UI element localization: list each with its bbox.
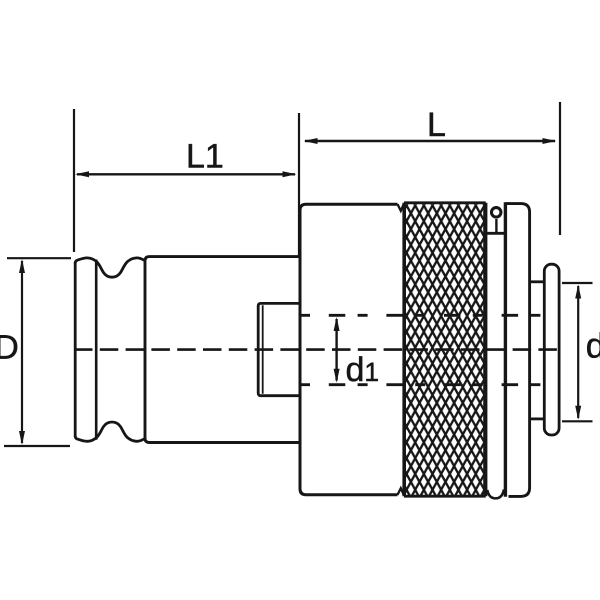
shank groove top silhouette xyxy=(75,258,145,277)
ball tick line xyxy=(495,219,497,232)
knurl band top edge xyxy=(404,201,486,204)
dimension L arrow right xyxy=(543,138,557,144)
knurl band right border xyxy=(483,203,487,496)
bottom relief groove U xyxy=(487,490,504,499)
shank left edge xyxy=(74,262,77,437)
stub bottom edge xyxy=(530,417,545,420)
boss chamfer line xyxy=(262,305,264,393)
collar outline xyxy=(505,204,529,497)
shank groove bottom silhouette xyxy=(75,422,145,441)
dimension D line xyxy=(21,261,23,443)
dimension L1/L shared extension line xyxy=(298,113,300,256)
body top V-notch xyxy=(398,204,405,211)
dimension D extension line top xyxy=(7,257,71,259)
dimension L1 extension line left xyxy=(73,109,75,252)
dimension d1 arrow up xyxy=(334,317,340,331)
svg-text:D: D xyxy=(0,329,19,367)
collar left edge xyxy=(504,202,507,497)
dimension L line xyxy=(305,140,555,142)
dimension L extension line right xyxy=(559,102,561,235)
centerline dashed xyxy=(74,348,562,351)
block outline xyxy=(145,257,300,443)
dimension L1 arrow left xyxy=(75,171,89,177)
svg-text:L1: L1 xyxy=(186,138,224,176)
dimension d extension line bottom xyxy=(562,420,593,422)
dimension d arrow up xyxy=(575,285,581,299)
dimension d line xyxy=(577,286,579,418)
body left edge and top/bottom edges xyxy=(300,204,398,495)
dimension D extension line bottom xyxy=(4,445,70,447)
dimension L1 arrow right xyxy=(283,171,297,177)
dimension L1 line xyxy=(77,173,295,175)
knurl band left border xyxy=(402,203,406,496)
knurl band bottom edge xyxy=(404,495,486,498)
flange rounded outline xyxy=(544,264,559,435)
ball detent circle xyxy=(491,208,501,218)
shank disk face line xyxy=(95,260,98,440)
body bottom V-notch xyxy=(398,488,405,495)
stub top edge xyxy=(530,280,545,283)
dimension d arrow down xyxy=(575,406,581,420)
dimension D arrow up xyxy=(19,259,25,273)
svg-text:d: d xyxy=(586,327,600,366)
svg-text:L: L xyxy=(427,106,446,144)
hidden bore line lower xyxy=(300,383,559,386)
dimension d extension line top xyxy=(562,282,593,284)
svg-text:d1: d1 xyxy=(345,351,379,389)
dimension d1 arrow down xyxy=(334,369,340,383)
dimension L arrow left xyxy=(304,138,318,144)
boss outline xyxy=(258,303,300,395)
knurl band fill xyxy=(405,204,484,495)
ball pocket floor xyxy=(487,232,505,235)
hidden bore line upper xyxy=(300,314,559,317)
dimension d1 line xyxy=(335,319,337,381)
dimension D arrow down xyxy=(19,431,25,445)
